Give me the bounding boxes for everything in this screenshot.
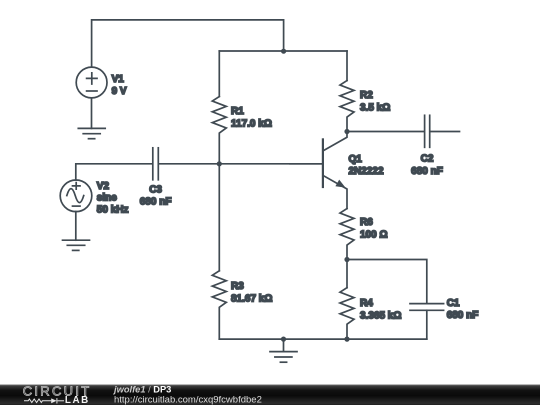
node collector junction	[344, 129, 349, 134]
svg-text:680 nF: 680 nF	[411, 166, 443, 177]
ground bottom	[270, 352, 297, 363]
resistor R1	[212, 51, 226, 164]
resistor R6	[340, 209, 354, 260]
wire collector to C2	[347, 131, 423, 133]
wire bottom net	[219, 338, 426, 340]
svg-text:V2: V2	[97, 181, 110, 192]
svg-text:R2: R2	[360, 90, 373, 101]
wire ground stub	[283, 339, 285, 352]
node R1/R3/base junction	[217, 161, 222, 166]
voltage source V2	[60, 180, 92, 212]
svg-text:http://circuitlab.com/cxq9fcwb: http://circuitlab.com/cxq9fcwbfdbe2	[114, 394, 262, 405]
svg-text:R1: R1	[231, 106, 244, 117]
wire R6 bottom to C1 top	[347, 260, 427, 303]
ground below V2	[63, 240, 90, 250]
wire V2 to ground	[75, 212, 77, 241]
svg-text:sine: sine	[97, 193, 117, 204]
svg-text:2N2222: 2N2222	[349, 166, 384, 177]
svg-text:C3: C3	[149, 184, 162, 195]
svg-text:C1: C1	[447, 298, 460, 309]
wire V1 top to rail corner	[92, 20, 284, 67]
node supply rail junction	[281, 49, 286, 54]
node R4 bottom junction	[344, 337, 349, 342]
wire supply rail	[219, 50, 347, 52]
svg-text:Q1: Q1	[349, 154, 363, 165]
capacitor C1	[410, 304, 444, 311]
CircuitLab logo resistor-diode glyph	[24, 398, 64, 403]
ground below V1	[78, 128, 105, 138]
resistor R2	[340, 51, 354, 132]
svg-text:jwolfe1 / DP3: jwolfe1 / DP3	[113, 385, 171, 395]
svg-text:R3: R3	[231, 281, 244, 292]
svg-text:81.67 kΩ: 81.67 kΩ	[231, 294, 272, 305]
svg-text:LAB: LAB	[65, 395, 90, 405]
node ground junction	[281, 337, 286, 342]
svg-text:V1: V1	[112, 74, 125, 85]
svg-text:C2: C2	[421, 154, 434, 165]
svg-text:3.365 kΩ: 3.365 kΩ	[360, 310, 401, 321]
svg-text:680 nF: 680 nF	[140, 197, 172, 208]
resistor R3	[212, 164, 226, 339]
wire C3 to Q1 base	[160, 163, 323, 165]
svg-text:3.5 kΩ: 3.5 kΩ	[360, 102, 390, 113]
wire C2 output	[431, 131, 460, 133]
transistor Q1	[290, 132, 347, 209]
wire base net: V2 corner to C3	[76, 164, 152, 180]
capacitor C3	[153, 148, 159, 180]
svg-text:50 kHz: 50 kHz	[97, 204, 129, 215]
capacitor C2	[425, 115, 430, 147]
svg-text:9 V: 9 V	[112, 86, 127, 97]
svg-text:R6: R6	[360, 217, 373, 228]
svg-text:R4: R4	[360, 298, 373, 309]
svg-text:117.0 kΩ: 117.0 kΩ	[231, 118, 272, 129]
voltage source V1	[76, 67, 107, 98]
svg-text:680 nF: 680 nF	[447, 310, 479, 321]
svg-text:100 Ω: 100 Ω	[360, 230, 387, 241]
node emitter network junction	[344, 257, 349, 262]
resistor R4	[340, 260, 354, 340]
wire C1 bottom	[426, 310, 428, 339]
wire V1 to ground	[91, 98, 93, 128]
